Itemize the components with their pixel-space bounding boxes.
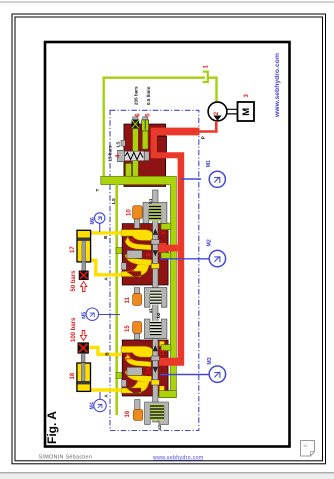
section1 yellow channel B [121,230,155,241]
green elbow bottom into section2 [159,391,176,398]
coupling pump-motor [227,109,238,114]
label 3 [244,94,250,98]
svg-text:P: P [200,136,205,139]
label M5 [82,312,88,319]
label 13 [127,353,133,360]
section2 yellow channel B [121,346,155,357]
relief valve 4 [118,150,150,161]
label 11 [125,296,131,303]
label 1 [204,65,210,69]
green stub section1 top [161,223,171,230]
svg-text:13: 13 [127,353,133,360]
motor M 3 [238,102,255,121]
svg-text:M4: M4 [90,402,96,409]
detent knob 10 [133,206,143,229]
section2 yellow channel A [121,381,150,393]
svg-text:www.sebhydro.com: www.sebhydro.com [153,455,204,461]
svg-text:15 bars: 15 bars [108,145,113,162]
tank return line (LS loop) [104,78,205,179]
thick drawing frame [45,42,290,447]
label 16 [125,410,131,417]
svg-text:11: 11 [125,296,131,303]
P pressure gallery (red bar + elbows + right runner) [151,128,200,358]
svg-text:M: M [241,108,252,116]
pump 2 [208,102,227,121]
label M2 [206,239,212,246]
label 9 [146,253,152,257]
label 14 [146,367,152,374]
label 17 [70,246,76,253]
label M6 [90,217,96,224]
svg-text:100 bars: 100 bars [71,317,77,342]
label 50 bars [71,270,77,292]
wire cyl18 base to port A2 (yellow) [90,388,121,391]
svg-text:b1: b1 [148,198,153,204]
label b2 [156,312,161,318]
label 235 bars [133,86,138,105]
label 10 [127,209,133,216]
svg-text:a1: a1 [148,308,153,314]
section1 spool collars [151,240,159,245]
page bottom edge line and background [0,474,334,479]
cap on inlet left [121,140,125,146]
svg-text:M5: M5 [82,312,88,319]
load valve 50 bars (black box red X) [79,271,88,280]
label P [200,136,205,139]
label 8b [130,268,136,272]
svg-text:14: 14 [146,367,152,374]
label 0.5 l/min [146,86,151,105]
vertical site url [274,53,281,118]
svg-text:M1: M1 [206,160,212,167]
gauge M5 [86,308,120,320]
svg-text:18: 18 [70,372,76,379]
knob 15 [133,322,142,340]
svg-text:235 bars: 235 bars [133,86,138,105]
wire tank to pump [208,78,217,103]
label a1 [148,308,153,314]
red elbow into section 2 [159,358,184,366]
label b1 [148,198,153,204]
wire pump outlet (red) [199,121,216,132]
port label A2 [103,394,108,398]
label a2 [157,424,162,430]
gauge M6 [95,213,105,232]
gauge M3 [160,366,226,382]
load valve 100 bars (black box red X) [78,343,89,354]
section1 yellow mid blob [125,251,152,266]
page top edge line [0,2,334,3]
label 18 [70,372,76,379]
svg-text:15: 15 [125,325,131,332]
section1 yellow channel A [121,264,150,276]
svg-text:LS: LS [111,198,116,204]
svg-text:M2: M2 [206,239,212,246]
svg-text:Fig. A: Fig. A [45,411,59,444]
label 7 [162,231,168,235]
label M3 [207,357,213,364]
section2 spool arrows [153,345,158,373]
label 12 [160,348,166,355]
section1 yellow branch to spool [125,237,151,251]
force arrow up [81,282,87,292]
green stub section1 mid [161,253,171,259]
spring housing b1 [143,203,167,224]
label T [95,189,100,192]
inlet internal green channels [133,123,139,178]
LS elbow into section2 [116,373,126,379]
label 2 [214,111,220,115]
section2 yellow mid blob [125,367,152,382]
label LS (line) [111,198,116,204]
svg-text:10: 10 [127,209,133,216]
label M1 [206,160,212,167]
gauge M2 [160,250,226,266]
svg-text:a2: a2 [157,424,162,430]
svg-text:16: 16 [125,410,131,417]
label M4 [90,402,96,409]
spring housing a1 [145,288,167,308]
red stub into section 1 [160,245,178,252]
section2 spool collars [151,356,159,361]
port label A1 [103,277,108,281]
label 6 [135,113,141,117]
port label B2 [104,352,109,356]
svg-text:M6: M6 [90,217,96,224]
LS elbow into section1 [116,248,126,254]
section1 gray fitting left [122,250,143,269]
svg-text:17: 17 [70,246,76,253]
svg-text:50 bars: 50 bars [71,270,77,292]
Fig. A title [45,411,59,444]
gauge M4 [94,392,106,412]
section2 gray fitting left [122,367,143,387]
cylinder 18 [77,353,91,391]
wire cyl17 rod to port A1 (yellow) [89,260,121,274]
section2 yellow branch to spool [125,353,151,367]
port label B1 [103,235,108,239]
label LS (inlet) [115,142,120,148]
section1 red core [156,243,166,253]
svg-text:www.sebhydro.com: www.sebhydro.com [274,53,281,118]
label 8 [130,238,136,242]
pilot valve 5 [142,117,149,131]
svg-text:12: 12 [160,348,166,355]
label 100 bars [71,317,77,342]
tank 1 [203,72,208,82]
label 5 [145,113,151,117]
wire cyl17 head to port B1 (yellow) [89,231,121,234]
spring housing b2 [145,319,167,339]
svg-text:b2: b2 [156,312,161,318]
green stub section2 top [161,345,171,351]
gauge M1 [181,171,225,187]
section2 yellow port dots [160,341,165,346]
valve body: section 2 [122,340,168,396]
svg-text:0.5 l/min: 0.5 l/min [146,86,151,105]
label 15 bars [108,145,113,162]
enclosure boundary (blue dash-dot) [110,110,199,430]
tank gallery thick pipe (T) [101,176,177,397]
knob 16 [133,400,142,421]
valve body: section 1 [122,224,168,285]
knob 11 [133,288,142,306]
wire valve18 to port B2 (yellow) [89,347,121,354]
LS sense line (green vertical) [115,184,118,415]
spool rail [153,190,158,422]
svg-text:10: 10 [303,443,308,448]
label 4 [115,154,121,158]
svg-text:SIMONIN Sébastien: SIMONIN Sébastien [39,454,93,460]
pilot valve 6 [132,117,139,128]
svg-text:T: T [95,189,100,192]
svg-text:LS: LS [115,142,120,148]
force arrow down [80,331,86,341]
cylinder 17 [77,230,91,271]
note icon bottom right [301,441,315,457]
valve body: inlet section [124,124,167,187]
section1 spool arrows [153,229,158,257]
label 15 [125,325,131,332]
svg-text:M3: M3 [207,357,213,364]
spring housing a2 [145,402,169,424]
